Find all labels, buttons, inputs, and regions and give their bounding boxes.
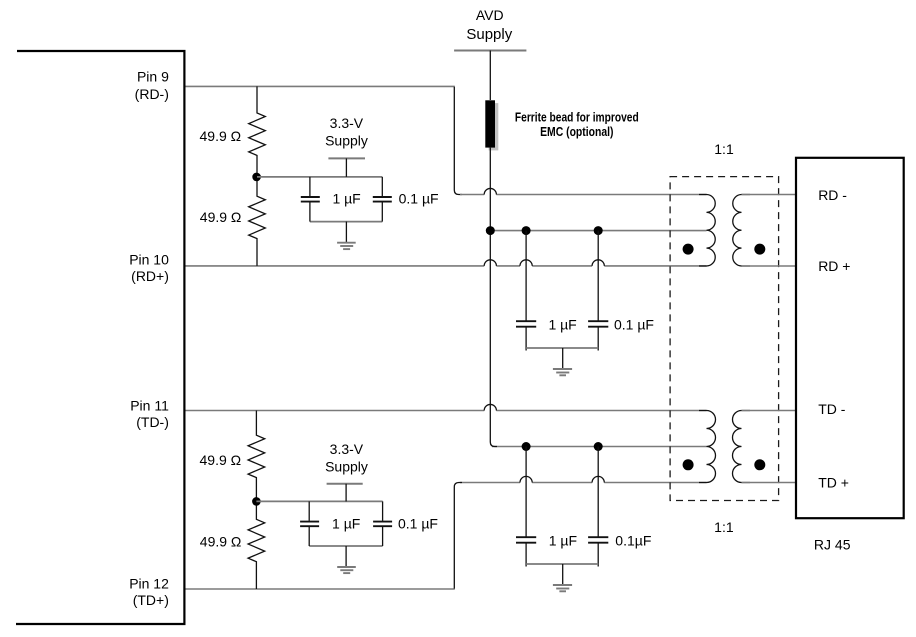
T1 secondary phase dot: [754, 244, 765, 255]
junction dot TD center tap / C8 branch: [594, 442, 603, 451]
svg-text:3.3-V: 3.3-V: [330, 441, 364, 457]
svg-text:Pin 12: Pin 12: [129, 576, 169, 592]
capacitor C5 1uF plates (lower box left): [300, 522, 319, 527]
junction dot TD termination center: [252, 497, 261, 506]
wire pin 9 to RD- corner: [454, 87, 462, 195]
junction dot RD center tap / C3 branch: [522, 226, 531, 235]
T1 primary phase dot: [683, 244, 694, 255]
svg-text:(RD+): (RD+): [131, 268, 169, 284]
svg-text:1:1: 1:1: [714, 519, 734, 535]
svg-text:49.9 Ω: 49.9 Ω: [200, 533, 242, 549]
wire RD center tap row: [490, 230, 706, 232]
wire crossover hump TD- over AVD: [484, 404, 496, 410]
IC U1 (PHY device, left box): [16, 51, 184, 624]
wire T1 secondary to RJ45 (RD-): [742, 194, 797, 196]
capacitor C8 0.1uF (TD center tap): [597, 447, 599, 567]
svg-text:Pin 9: Pin 9: [137, 69, 169, 85]
transformer T1 secondary winding (RD): [733, 195, 750, 267]
capacitor C1 1uF plates (upper box left): [301, 197, 320, 202]
capacitor network box lower (C 1uF / 0.1uF on 3.3V): [309, 545, 382, 547]
svg-text:RJ 45: RJ 45: [814, 536, 851, 552]
resistor R4 49.9 ohm (TD+ termination): [248, 501, 265, 589]
wire crossover humps RD+ row: [484, 260, 604, 266]
wire T2 secondary to RJ45 (TD-): [742, 410, 797, 412]
resistor R1 49.9 ohm (RD- termination): [249, 86, 266, 176]
svg-text:3.3-V: 3.3-V: [330, 115, 364, 131]
pin 9 label: [135, 69, 169, 102]
wire pin 9 row: [186, 85, 455, 87]
wire crossover hump RD- over AVD: [484, 188, 496, 194]
transformer isolation dashed box: [670, 177, 779, 501]
svg-text:RD -: RD -: [818, 187, 847, 203]
ferrite bead FB1 shadow: [489, 103, 499, 150]
3.3-V supply bar (upper): [328, 157, 365, 159]
transformer T1 primary winding (RD): [699, 195, 715, 267]
pin 12 label: [129, 576, 169, 609]
svg-text:1 µF: 1 µF: [332, 191, 360, 207]
wire RD cap bottom rail: [526, 347, 598, 349]
ground symbol (upper box): [345, 222, 347, 243]
svg-text:(TD-): (TD-): [136, 414, 169, 430]
wire T2 secondary to RJ45 (TD+): [742, 482, 797, 484]
svg-text:0.1 µF: 0.1 µF: [398, 515, 438, 531]
capacitor C7 1uF (TD center tap): [525, 447, 527, 567]
T2 primary phase dot: [683, 459, 694, 470]
wire TD+ row: [460, 482, 707, 484]
svg-text:1 µF: 1 µF: [549, 532, 577, 548]
wire pin 11 / TD- row: [186, 410, 707, 412]
junction dot RD center tap / C4 branch: [594, 226, 603, 235]
supply label 3.3-V (upper): [325, 115, 368, 149]
junction dot AVD / RD center tap: [486, 226, 495, 235]
wire TD cap bottom rail: [526, 563, 598, 565]
ground symbol (TD center tap caps): [562, 564, 564, 585]
svg-text:0.1µF: 0.1µF: [615, 532, 651, 548]
wire RD- row: [460, 194, 707, 196]
wire pin 10 / RD+ row: [186, 265, 707, 267]
wire AVD stem upper: [489, 51, 491, 101]
wire crossover humps TD+ row: [520, 476, 604, 482]
T2 secondary phase dot: [754, 459, 765, 470]
AVD supply bar: [454, 50, 526, 52]
svg-text:(TD+): (TD+): [133, 592, 169, 608]
capacitor C6 0.1uF plates (lower box right): [373, 522, 392, 527]
svg-text:49.9 Ω: 49.9 Ω: [200, 209, 242, 225]
svg-text:Ferrite bead for improved: Ferrite bead for improved: [515, 109, 639, 124]
transformer T2 secondary winding (TD): [733, 411, 750, 483]
svg-text:EMC (optional): EMC (optional): [540, 124, 613, 139]
transformer T2 primary winding (TD): [699, 411, 716, 483]
capacitor C2 0.1uF plates (upper box right): [373, 197, 392, 202]
capacitor C4 0.1uF (RD center tap): [597, 231, 599, 351]
junction dot TD center tap / C7 branch: [522, 442, 531, 451]
svg-text:1:1: 1:1: [714, 141, 734, 157]
ground symbol (RD center tap caps): [562, 348, 564, 369]
wire pin 12 row: [186, 588, 455, 590]
wire supply stem (lower): [345, 484, 347, 502]
AVD Supply label: [466, 7, 512, 43]
pin 11 label: [130, 397, 169, 430]
resistor R2 49.9 ohm (RD+ termination): [249, 177, 266, 266]
wire RD termination center to cap box (top edge): [257, 176, 382, 178]
resistor R3 49.9 ohm (TD- termination): [248, 411, 265, 502]
svg-text:Supply: Supply: [325, 133, 368, 149]
svg-text:(RD-): (RD-): [135, 86, 169, 102]
3.3-V supply bar (lower): [327, 483, 363, 485]
svg-text:49.9 Ω: 49.9 Ω: [200, 128, 242, 144]
svg-text:Supply: Supply: [466, 26, 512, 43]
capacitor C3 1uF (RD center tap): [525, 231, 527, 351]
svg-text:Pin 10: Pin 10: [129, 252, 169, 268]
wire T1 secondary to RJ45 (RD+): [742, 265, 797, 267]
supply label 3.3-V (lower): [325, 441, 368, 475]
wire pin 12 to TD+ corner: [454, 483, 462, 589]
svg-text:0.1 µF: 0.1 µF: [399, 191, 439, 207]
svg-text:Supply: Supply: [325, 459, 368, 475]
svg-text:0.1 µF: 0.1 µF: [614, 317, 654, 333]
svg-text:AVD: AVD: [476, 7, 504, 23]
svg-text:TD -: TD -: [818, 401, 846, 417]
svg-text:1 µF: 1 µF: [548, 317, 576, 333]
svg-text:1 µF: 1 µF: [332, 515, 360, 531]
svg-text:49.9 Ω: 49.9 Ω: [200, 452, 242, 468]
ferrite bead note text: [515, 109, 639, 139]
svg-text:TD +: TD +: [818, 475, 849, 491]
svg-text:Pin 11: Pin 11: [130, 397, 169, 413]
svg-text:RD +: RD +: [818, 258, 850, 274]
junction dot RD termination center: [252, 173, 261, 182]
RJ45 connector box: [796, 158, 904, 518]
ground symbol (lower box): [345, 546, 347, 567]
wire AVD stem lower to TD center tap: [490, 148, 497, 447]
pin 10 label: [129, 252, 169, 285]
wire supply stem (upper): [345, 158, 347, 177]
wire TD center tap row: [492, 446, 707, 448]
capacitor network box upper (C 1uF / 0.1uF on 3.3V): [310, 221, 382, 223]
wire TD termination center to cap box (top edge): [256, 500, 382, 502]
ferrite bead FB1: [485, 100, 495, 147]
